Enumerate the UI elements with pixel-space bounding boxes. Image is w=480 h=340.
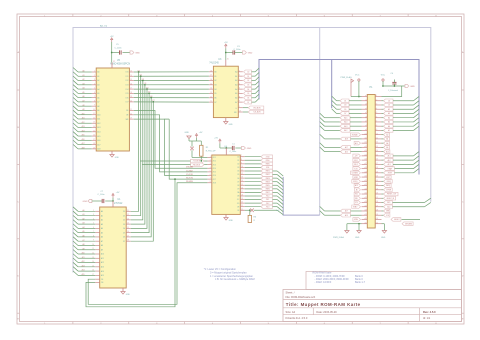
svg-text:15: 15 — [127, 227, 129, 229]
svg-text:12: 12 — [93, 118, 95, 120]
svg-text:B1: B1 — [214, 76, 216, 78]
svg-text:15: 15 — [241, 184, 243, 186]
decoupling cap C7 — [101, 199, 103, 203]
svg-text:A0: A0 — [101, 210, 103, 213]
U4 left input pins — [207, 156, 211, 158]
svg-text:D3: D3 — [344, 105, 346, 107]
+5V above U3 — [225, 46, 227, 48]
svg-text:GND: GND — [185, 132, 190, 134]
svg-text:z.B. für Geodreieck + 64kByte: z.B. für Geodreieck + 64kByte RAM — [215, 278, 255, 281]
svg-text:RESET_IN: RESET_IN — [387, 198, 394, 200]
svg-text:O7: O7 — [237, 181, 239, 183]
svg-text:D6: D6 — [123, 237, 125, 239]
IC U5 AS6C4008-55PCN (512K RAM) body — [96, 68, 129, 151]
svg-text:13: 13 — [241, 177, 243, 179]
svg-text:B0: B0 — [214, 72, 216, 74]
svg-text:IO6: IO6 — [126, 97, 129, 99]
svg-text:a25: a25 — [364, 197, 367, 199]
svg-text:8: 8 — [94, 100, 95, 102]
svg-text:D0: D0 — [123, 211, 125, 213]
U5 GND pin 16 — [111, 151, 113, 155]
address flags from ring bus to P1 left — [320, 113, 325, 118]
title block — [283, 290, 462, 322]
svg-text:5: 5 — [210, 170, 211, 172]
svg-text:/IORQ: /IORQ — [353, 181, 358, 183]
svg-text:IO4: IO4 — [126, 89, 129, 91]
IC U4 decoder body — [212, 155, 241, 214]
svg-text:c26: c26 — [376, 201, 379, 203]
jumper X1 — [191, 141, 193, 147]
svg-text:18: 18 — [210, 70, 212, 72]
svg-text:c13: c13 — [376, 146, 379, 148]
svg-text:20: 20 — [227, 58, 229, 60]
svg-text:29: 29 — [130, 118, 132, 120]
svg-text:16: 16 — [93, 135, 95, 137]
svg-text:c29: c29 — [376, 214, 379, 216]
wrap-around wires from U1 CE/OE — [88, 183, 207, 305]
svg-text:C_100n: C_100n — [115, 47, 122, 49]
svg-text:14: 14 — [127, 223, 129, 225]
svg-text:c6: c6 — [376, 116, 378, 118]
svg-text:A9: A9 — [101, 248, 103, 251]
svg-text:13: 13 — [93, 122, 95, 124]
svg-text:File: ROM-RAM-karte.sch: File: ROM-RAM-karte.sch — [286, 295, 316, 299]
svg-text:a16: a16 — [364, 159, 367, 161]
svg-text:/SL3: /SL3 — [266, 206, 270, 208]
svg-text:/CS1: /CS1 — [354, 168, 358, 170]
svg-text:19: 19 — [130, 96, 132, 98]
pullup resistor R1 — [200, 145, 203, 156]
svg-text:/M1: /M1 — [355, 194, 358, 196]
svg-text:O6: O6 — [237, 178, 239, 180]
svg-text:a13: a13 — [364, 146, 367, 148]
svg-text:3: 3 — [239, 75, 240, 77]
U3 left pins B0-B7 + wires from U5 IO — [209, 71, 214, 73]
svg-text:O0: O0 — [237, 156, 239, 158]
svg-text:/CS0: /CS0 — [266, 156, 270, 158]
svg-text:a7: a7 — [365, 121, 367, 123]
svg-text:A18: A18 — [97, 148, 100, 151]
misc control flags P1 left — [351, 133, 361, 137]
svg-text:GND: GND — [229, 124, 234, 126]
svg-text:4: 4 — [94, 83, 95, 85]
flags near bottom right — [391, 218, 401, 222]
svg-text:O8: O8 — [237, 185, 239, 187]
svg-text:/WR2: /WR2 — [354, 177, 358, 179]
svg-text:A1: A1 — [97, 75, 99, 78]
data bus branch at x=331.7 — [331, 60, 333, 109]
+5V for pullup — [196, 135, 198, 137]
svg-text:D1: D1 — [388, 105, 390, 107]
address bus ring (left/top) — [73, 28, 431, 273]
wire +5V to U5 VCC — [111, 42, 113, 63]
svg-text:a30: a30 — [364, 218, 367, 220]
svg-text:4: 4 — [210, 167, 211, 169]
svg-text:c20: c20 — [376, 176, 379, 178]
svg-text:a9: a9 — [365, 129, 367, 131]
svg-text:+5V: +5V — [199, 132, 203, 134]
svg-text:22: 22 — [130, 109, 132, 111]
svg-text:B6: B6 — [214, 98, 216, 100]
svg-text:6: 6 — [94, 92, 95, 94]
svg-text:/RD-ROM: /RD-ROM — [186, 178, 193, 180]
svg-text:B5: B5 — [214, 93, 216, 95]
svg-text:/IO6: /IO6 — [213, 175, 216, 177]
svg-text:19: 19 — [239, 111, 241, 113]
svg-text:c15: c15 — [376, 155, 379, 157]
svg-text:GND: GND — [115, 157, 120, 159]
svg-text:Cn2: Cn2 — [276, 210, 279, 212]
svg-text:c28: c28 — [376, 210, 379, 212]
svg-text:12: 12 — [127, 214, 129, 216]
svg-text:/RD-BUS: /RD-BUS — [253, 107, 261, 109]
svg-text:AS6C4008-55PCN: AS6C4008-55PCN — [110, 63, 130, 66]
svg-text:/RD-BUS: /RD-BUS — [193, 164, 201, 166]
svg-text:A12: A12 — [97, 122, 100, 125]
svg-text:5: 5 — [94, 88, 95, 90]
svg-text:c5: c5 — [376, 112, 378, 114]
svg-text:a19: a19 — [364, 171, 367, 173]
svg-text:21: 21 — [241, 205, 243, 207]
svg-text:D5: D5 — [123, 232, 125, 234]
svg-text:c23: c23 — [376, 188, 379, 190]
GND flag right of C4 — [405, 84, 409, 87]
svg-text:7: 7 — [210, 178, 211, 180]
svg-text:6: 6 — [210, 174, 211, 176]
svg-text:PWR_FLAG: PWR_FLAG — [333, 236, 344, 239]
svg-text:a1: a1 — [365, 95, 367, 97]
svg-text:GND: GND — [229, 220, 234, 222]
svg-text:B3: B3 — [214, 85, 216, 87]
svg-text:a18: a18 — [364, 167, 367, 169]
svg-text:O9: O9 — [237, 189, 239, 191]
svg-text:C_Polarized: C_Polarized — [388, 90, 398, 92]
svg-text:GND: GND — [247, 148, 252, 150]
svg-text:17: 17 — [210, 75, 212, 77]
svg-text:Id: 1/1: Id: 1/1 — [423, 316, 431, 320]
svg-text:D3: D3 — [247, 85, 249, 87]
svg-text:A7: A7 — [97, 101, 99, 104]
svg-text:9: 9 — [239, 101, 240, 103]
svg-text:A13: A13 — [101, 266, 104, 269]
svg-text:9: 9 — [241, 162, 242, 164]
svg-text:a26: a26 — [364, 201, 367, 203]
svg-text:8: 8 — [210, 181, 211, 183]
svg-text:32: 32 — [113, 61, 115, 63]
svg-text:GND: GND — [248, 52, 253, 54]
svg-text:A5: A5 — [235, 92, 237, 95]
svg-text:c18: c18 — [376, 167, 379, 169]
svg-text:c19: c19 — [376, 171, 379, 173]
svg-text:IO5: IO5 — [148, 92, 151, 94]
svg-text:11: 11 — [93, 113, 95, 115]
svg-text:3: 3 — [210, 163, 211, 165]
svg-text:/CS-ROM: /CS-ROM — [186, 174, 193, 176]
svg-text:a12: a12 — [364, 142, 367, 144]
svg-text:6: 6 — [239, 88, 240, 90]
svg-text:a10: a10 — [364, 133, 367, 135]
svg-text:GND: GND — [126, 294, 131, 296]
svg-text:A5: A5 — [97, 92, 99, 95]
svg-text:a21: a21 — [364, 180, 367, 182]
IC U3 74LS245 body — [213, 66, 238, 117]
svg-text:18: 18 — [93, 143, 95, 145]
svg-text:a24: a24 — [364, 193, 367, 195]
svg-text:11: 11 — [127, 210, 129, 212]
svg-text:D6: D6 — [247, 98, 249, 100]
svg-text:14: 14 — [210, 88, 212, 90]
U5 VCC pin 32 — [111, 63, 113, 69]
svg-text:c24: c24 — [376, 193, 379, 195]
svg-text:12: 12 — [241, 173, 243, 175]
svg-text:a22: a22 — [364, 184, 367, 186]
svg-text:A6: A6 — [101, 236, 103, 239]
svg-text:9: 9 — [94, 105, 95, 107]
svg-text:A5: A5 — [101, 231, 103, 234]
svg-text:O2: O2 — [237, 164, 239, 166]
U5 control pins CE OE WE — [129, 110, 133, 112]
svg-text:/IORQ: /IORQ — [386, 181, 391, 183]
svg-text:O1: O1 — [237, 160, 239, 162]
svg-text:A14: A14 — [344, 121, 347, 124]
svg-text:A15: A15 — [101, 274, 104, 277]
svg-text:c27: c27 — [376, 205, 379, 207]
svg-text:+5V: +5V — [110, 36, 114, 38]
TRAP/INTR wires to right bus — [382, 168, 384, 170]
connector P1 body — [367, 95, 375, 229]
decoupling cap C5 — [112, 52, 120, 54]
svg-text:8: 8 — [239, 96, 240, 98]
svg-text:VCC: VCC — [381, 74, 386, 76]
svg-text:D3: D3 — [123, 224, 125, 226]
svg-text:D2: D2 — [247, 80, 249, 82]
svg-text:15: 15 — [93, 130, 95, 132]
svg-text:D1: D1 — [123, 215, 125, 217]
svg-text:A14: A14 — [101, 270, 104, 273]
svg-text:D4: D4 — [123, 228, 125, 230]
note box with memory map comments — [306, 272, 462, 290]
P1 bottom-left GND wiring — [347, 223, 362, 225]
svg-text:5: 5 — [239, 83, 240, 85]
svg-text:17: 17 — [93, 139, 95, 141]
svg-text:- RAM: 0-FFFF: - RAM: 0-FFFF — [315, 281, 332, 284]
svg-text:c1: c1 — [376, 95, 378, 97]
U4 VCC pin — [225, 148, 227, 155]
svg-text:D5: D5 — [344, 109, 346, 111]
decoupling cap C1 — [231, 146, 233, 150]
U3 DIR/OE pins with local flags — [238, 107, 243, 109]
4th control vertical — [165, 118, 170, 120]
svg-text:a5: a5 — [365, 112, 367, 114]
svg-text:1: 1 — [210, 156, 211, 158]
svg-text:A3: A3 — [101, 223, 103, 226]
svg-text:17: 17 — [241, 191, 243, 193]
svg-text:A0: A0 — [235, 71, 237, 74]
svg-text:IO7: IO7 — [126, 102, 129, 104]
svg-text:A1: A1 — [101, 214, 103, 217]
+5V symbol above U5 — [111, 40, 113, 42]
svg-text:IO5: IO5 — [126, 93, 129, 95]
U3 GND pin 10 — [225, 118, 227, 122]
bus segment to decoder — [283, 177, 320, 215]
svg-text:D4: D4 — [247, 89, 249, 91]
svg-text:GND: GND — [83, 201, 88, 203]
decoupling cap C3 — [232, 50, 234, 54]
svg-text:a6: a6 — [365, 116, 367, 118]
svg-text:/IO1: /IO1 — [213, 157, 216, 159]
svg-text:A3: A3 — [97, 84, 99, 87]
svg-text:c17: c17 — [376, 163, 379, 165]
svg-text:A4: A4 — [235, 88, 237, 91]
svg-text:GND: GND — [355, 237, 360, 239]
svg-text:a3: a3 — [365, 104, 367, 106]
svg-text:a31: a31 — [364, 222, 367, 224]
RESET group wires to right bus — [382, 193, 384, 195]
svg-text:IO0: IO0 — [126, 72, 129, 74]
svg-text:Rev: 4.5.0: Rev: 4.5.0 — [423, 310, 436, 314]
svg-text:Bank 1-7: Bank 1-7 — [355, 281, 366, 284]
wires from U5 control pins to U4 inputs — [134, 111, 208, 169]
svg-text:2: 2 — [94, 75, 95, 77]
svg-text:GND: GND — [135, 52, 140, 54]
svg-text:a11: a11 — [364, 138, 367, 140]
svg-text:c12: c12 — [376, 142, 379, 144]
svg-text:1: 1 — [94, 71, 95, 73]
svg-text:12: 12 — [210, 96, 212, 98]
U1 GND pin — [122, 288, 124, 292]
wire to pin a1 — [351, 96, 362, 98]
svg-text:a28: a28 — [364, 210, 367, 212]
svg-text:17: 17 — [130, 88, 132, 90]
U5 right data pins IO0-IO7 — [129, 71, 133, 73]
svg-text:c9: c9 — [376, 129, 378, 131]
svg-text:10: 10 — [241, 166, 243, 168]
svg-text:D7: D7 — [247, 102, 249, 104]
svg-text:c25: c25 — [376, 197, 379, 199]
svg-text:GND: GND — [410, 86, 415, 88]
svg-text:A10: A10 — [97, 113, 100, 116]
svg-text:16: 16 — [241, 187, 243, 189]
svg-text:/DOSEN: /DOSEN — [352, 173, 359, 175]
long address wires from ring bus rows — [320, 134, 325, 139]
svg-text:A6: A6 — [235, 97, 237, 100]
svg-text:A12: A12 — [101, 261, 104, 264]
svg-text:A13: A13 — [344, 125, 347, 128]
svg-text:D7: D7 — [344, 113, 346, 115]
svg-text:15: 15 — [210, 83, 212, 85]
svg-text:11: 11 — [210, 101, 212, 103]
svg-text:A15: A15 — [97, 135, 100, 138]
svg-text:a2: a2 — [365, 99, 367, 101]
svg-text:18: 18 — [127, 240, 129, 242]
svg-text:16: 16 — [210, 79, 212, 81]
svg-text:C_100n: C_100n — [230, 151, 237, 153]
svg-text:/RST: /RST — [386, 177, 390, 179]
svg-text:B7: B7 — [214, 102, 216, 104]
svg-text:O5: O5 — [237, 174, 239, 176]
svg-text:16: 16 — [127, 231, 129, 233]
svg-text:A[0..15]: A[0..15] — [100, 24, 107, 27]
svg-text:/RD2: /RD2 — [354, 164, 358, 166]
svg-text:Sheet: /: Sheet: / — [286, 291, 295, 295]
svg-text:c2: c2 — [376, 99, 378, 101]
svg-text:C_100n: C_100n — [234, 49, 241, 51]
svg-text:R_PULLUP: R_PULLUP — [206, 150, 217, 152]
svg-text:/WR1: /WR1 — [265, 171, 269, 173]
svg-text:19: 19 — [241, 198, 243, 200]
bottom output row with jumper X2 — [240, 209, 244, 211]
svg-text:O3: O3 — [237, 167, 239, 169]
svg-text:A16: A16 — [97, 139, 100, 142]
svg-text:/SL0: /SL0 — [266, 196, 270, 198]
svg-text:c7: c7 — [376, 121, 378, 123]
svg-text:A1: A1 — [235, 75, 237, 78]
svg-text:/RF2: /RF2 — [354, 160, 358, 162]
svg-text:A2: A2 — [97, 79, 99, 82]
svg-text:/IO7: /IO7 — [213, 179, 216, 181]
svg-text:OE: OE — [237, 206, 239, 208]
svg-text:/WR3: /WR3 — [265, 178, 269, 180]
svg-text:/RD-MEM: /RD-MEM — [186, 181, 193, 183]
svg-text:GND: GND — [381, 237, 386, 239]
svg-text:/IO4: /IO4 — [213, 168, 216, 170]
svg-text:11: 11 — [241, 170, 243, 172]
svg-text:8: 8 — [241, 159, 242, 161]
svg-text:PWR_FLAG: PWR_FLAG — [341, 76, 352, 79]
svg-text:A13: A13 — [97, 126, 100, 129]
svg-text:a14: a14 — [364, 150, 367, 152]
GND flag right of C5 — [130, 51, 134, 54]
svg-text:/IO2: /IO2 — [213, 161, 216, 163]
svg-text:/CS-BUS: /CS-BUS — [193, 161, 201, 163]
svg-text:a15: a15 — [364, 155, 367, 157]
svg-text:A15: A15 — [344, 116, 347, 119]
svg-text:20: 20 — [130, 100, 132, 102]
svg-text:14: 14 — [93, 126, 95, 128]
svg-text:13: 13 — [130, 71, 132, 73]
svg-text:A2: A2 — [101, 219, 103, 222]
svg-text:13: 13 — [127, 218, 129, 220]
svg-text:27C512: 27C512 — [114, 202, 123, 205]
svg-text:/CS: /CS — [355, 202, 358, 204]
svg-text:/RD0: /RD0 — [266, 160, 270, 162]
svg-text:13: 13 — [210, 92, 212, 94]
svg-text:c10: c10 — [376, 133, 379, 135]
svg-text:A11: A11 — [97, 118, 100, 121]
svg-text:19: 19 — [93, 147, 95, 149]
stub wires at decoder input rows extending left — [140, 160, 191, 162]
svg-text:A2: A2 — [235, 79, 237, 82]
U1 VCC pin — [112, 201, 114, 207]
svg-text:/SL1: /SL1 — [266, 199, 270, 201]
U4 GND pin — [225, 214, 227, 217]
svg-text:/WR5: /WR5 — [265, 185, 269, 187]
svg-text:a23: a23 — [364, 188, 367, 190]
svg-text:A8: A8 — [97, 105, 99, 108]
U5 left pins A0-A18 with bus entries — [92, 71, 96, 73]
svg-text:+5V: +5V — [116, 192, 120, 194]
svg-text:7: 7 — [94, 96, 95, 98]
data bus (dark) — [259, 60, 419, 175]
svg-text:18: 18 — [130, 92, 132, 94]
svg-text:c21: c21 — [376, 180, 379, 182]
svg-text:2: 2 — [210, 160, 211, 162]
svg-text:A11: A11 — [101, 257, 104, 260]
svg-text:18: 18 — [241, 195, 243, 197]
svg-text:A9: A9 — [97, 109, 99, 112]
svg-text:A6: A6 — [97, 96, 99, 99]
svg-text:IO2: IO2 — [126, 80, 129, 82]
